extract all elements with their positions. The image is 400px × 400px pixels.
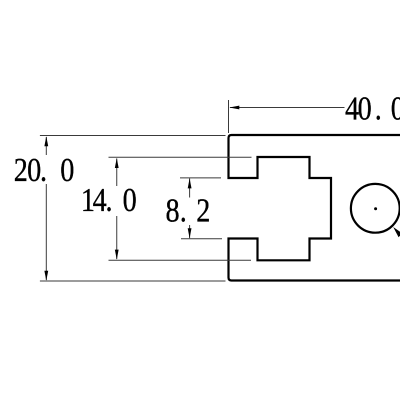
dimension 20.0 top arrow — [44, 136, 48, 146]
dimension 40.0 arrow — [229, 106, 239, 110]
svg-text:.: . — [375, 89, 382, 127]
dimension 8.2 top arrow — [188, 178, 192, 188]
dimension 20.0 bottom extension line — [40, 280, 226, 282]
dimension 20.0 top extension line — [40, 135, 226, 137]
dimension 14.0 line lower segment — [116, 216, 118, 259]
dimension 20.0 bottom arrow — [44, 271, 48, 281]
svg-text:.: . — [40, 151, 47, 189]
svg-text:.: . — [180, 191, 187, 229]
dimension 40.0 extension line — [228, 100, 230, 133]
dimension 20.0 text — [14, 151, 75, 189]
svg-text:0: 0 — [123, 180, 137, 218]
dimension 14.0 line upper segment — [116, 159, 118, 187]
dimension 14.0 bottom extension line — [109, 259, 252, 261]
dimension 14.0 top arrow — [115, 158, 119, 168]
svg-text:.: . — [106, 180, 113, 218]
dimension 20.0 line upper segment — [45, 137, 47, 155]
svg-text:0: 0 — [358, 89, 372, 127]
part outline (stepped cross-slot profile) — [229, 135, 400, 281]
svg-text:2: 2 — [196, 191, 210, 229]
dimension 8.2 top extension line — [180, 177, 221, 179]
svg-text:0: 0 — [27, 151, 41, 189]
svg-text:0: 0 — [60, 151, 74, 189]
leader arrowhead at circle lower right — [393, 227, 400, 237]
dimension 14.0 bottom arrow — [115, 250, 119, 260]
dimension 8.2 line lower segment — [189, 225, 191, 238]
dimension 40.0 text — [345, 89, 400, 127]
dimension 20.0 line lower segment — [45, 184, 47, 280]
hole circle — [351, 184, 400, 233]
dimension 40.0 line — [230, 107, 345, 109]
svg-text:2: 2 — [14, 151, 28, 189]
dimension 8.2 bottom arrow — [188, 228, 192, 238]
dimension 14.0 top extension line — [109, 156, 252, 158]
svg-text:8: 8 — [166, 191, 180, 229]
dimension 8.2 text — [166, 191, 211, 229]
dimension 8.2 bottom extension line — [181, 238, 222, 240]
dimension 8.2 line upper segment — [189, 178, 191, 197]
svg-text:0: 0 — [391, 89, 400, 127]
dimension 14.0 text — [81, 180, 137, 218]
circle center dot — [374, 207, 377, 210]
